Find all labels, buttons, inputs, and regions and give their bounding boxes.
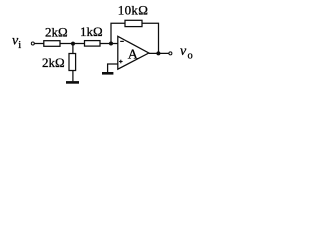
node C junction dot xyxy=(156,51,160,55)
wire node B up to R4 xyxy=(111,23,125,43)
svg-text:2kΩ: 2kΩ xyxy=(45,25,68,40)
svg-text:2kΩ: 2kΩ xyxy=(42,55,65,70)
wire R2 to op-amp inverting input xyxy=(100,43,118,45)
terminal vo xyxy=(169,52,172,55)
resistor R2 1k body xyxy=(85,41,101,47)
svg-text:vi: vi xyxy=(12,33,21,51)
resistor R1 2k body xyxy=(44,41,60,47)
op-amp A1 xyxy=(118,36,149,69)
wire op-amp noninverting input to ground xyxy=(108,64,118,72)
svg-text:vo: vo xyxy=(180,44,193,61)
ground G2 xyxy=(102,72,113,75)
wire R3 to ground xyxy=(72,71,74,82)
wire R1 to R2 xyxy=(60,43,85,45)
svg-text:1kΩ: 1kΩ xyxy=(80,24,103,39)
resistor R3 2k body (vertical) xyxy=(69,54,76,71)
wire R4 to output node xyxy=(142,23,159,53)
wire op-amp output xyxy=(149,52,169,54)
terminal vi xyxy=(31,42,34,45)
svg-text:10kΩ: 10kΩ xyxy=(118,3,148,18)
node B junction dot xyxy=(109,42,113,46)
svg-text:A: A xyxy=(128,47,139,62)
wire node A down to R3 xyxy=(72,44,74,54)
resistor R4 10k body xyxy=(125,20,142,26)
wire input to R1 xyxy=(34,43,44,45)
node A junction dot xyxy=(71,42,75,46)
ground G1 xyxy=(66,81,79,84)
